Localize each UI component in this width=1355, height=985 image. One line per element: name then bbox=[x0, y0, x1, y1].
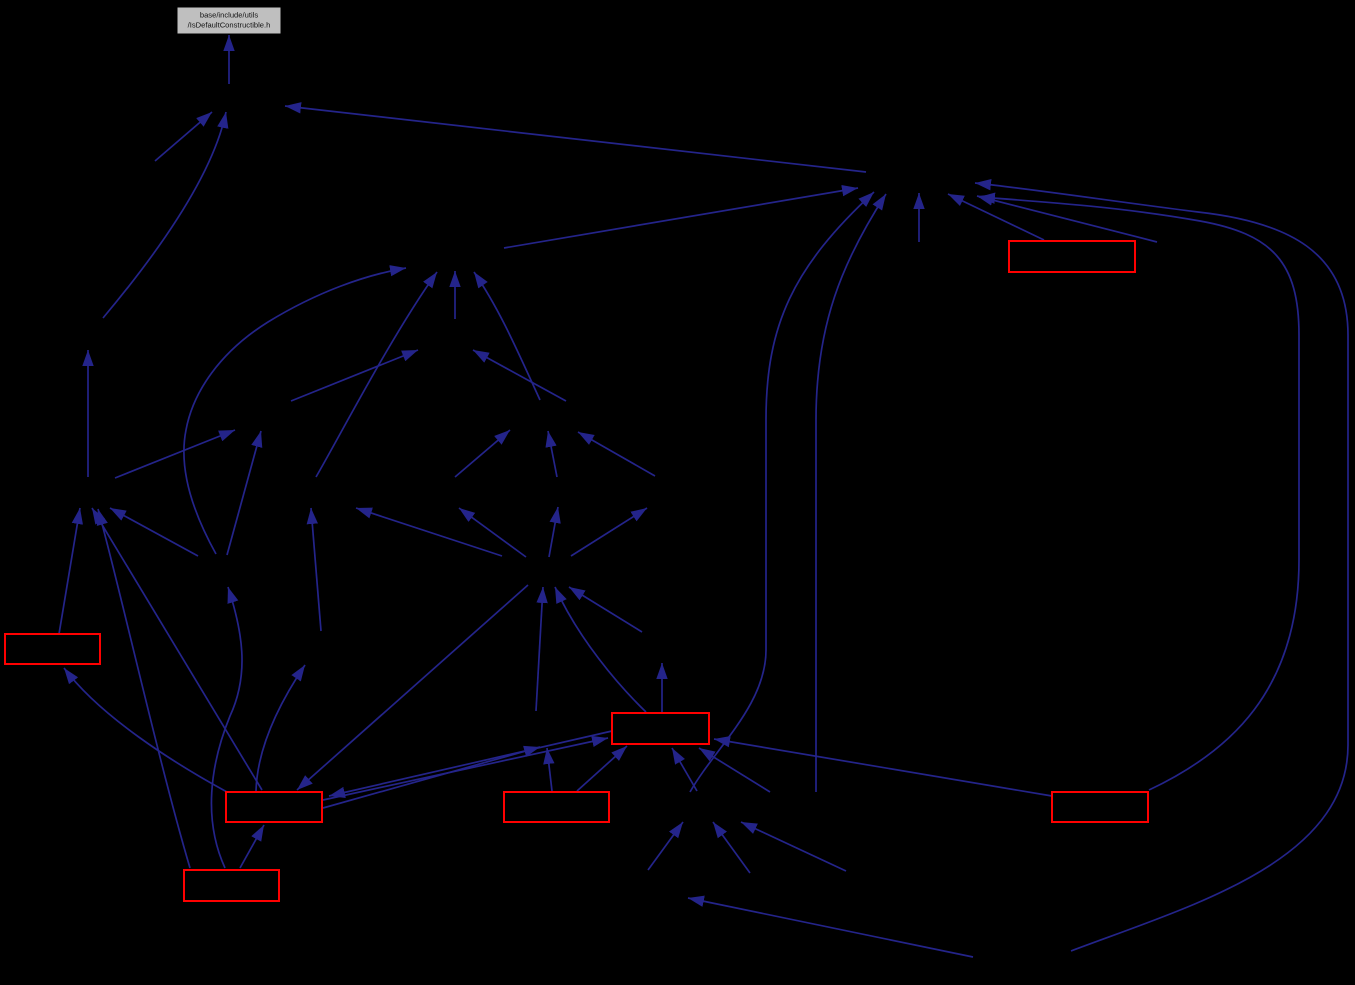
edge NHub2 to N3 (long vertical curve) bbox=[690, 192, 874, 792]
edge Nw to NC (steep curve) bbox=[316, 272, 437, 477]
edge NHub to Rc (downward) bbox=[297, 585, 528, 790]
edge NH to NG bbox=[110, 508, 198, 556]
edge Rc to Rf bbox=[323, 738, 608, 800]
edge NHub2 to Rf bbox=[672, 748, 697, 791]
edge N7 to ND bbox=[291, 350, 418, 401]
edge NG to N6 bbox=[87, 350, 89, 477]
edge Rc to Nx bbox=[256, 665, 305, 791]
edge N4 to N3 bbox=[918, 193, 920, 242]
node Rb red box bbox=[5, 634, 100, 664]
edge N6 to N2 (curved) bbox=[103, 112, 226, 318]
edge NHub to NJ bbox=[549, 507, 558, 557]
edge Rd to Rc bbox=[240, 825, 264, 868]
edge ND to NC bbox=[454, 271, 456, 319]
edge Ns to NHub2 bbox=[713, 822, 750, 873]
edge Rf to NL bbox=[661, 663, 663, 713]
edge Ra to N3 bbox=[948, 194, 1044, 240]
edge NC to N3 bbox=[504, 188, 858, 248]
edge NG to N7 bbox=[115, 430, 235, 478]
edge Re to Nm bbox=[547, 748, 552, 791]
edge Nu to Rf bbox=[699, 748, 770, 792]
edge Nr to NHub2 bbox=[648, 822, 683, 870]
edge Nx to Nw bbox=[311, 508, 321, 631]
edge N8 to N2 bbox=[155, 112, 212, 161]
edge Rc to NG bbox=[92, 508, 262, 790]
edge NL to NHub bbox=[569, 587, 642, 632]
svg-text:/IsDefaultConstructible.h: /IsDefaultConstructible.h bbox=[188, 21, 271, 30]
edge N2 to N1 bbox=[228, 35, 230, 84]
edge Rg to Rf bbox=[714, 739, 1052, 796]
edge NE to ND bbox=[473, 350, 566, 401]
edge Nt to NHub2 bbox=[741, 822, 846, 871]
edge NHub to NK bbox=[571, 508, 647, 556]
edge NI to NE bbox=[455, 430, 510, 477]
edge NH to NC (long left arc) bbox=[184, 268, 406, 554]
edge Nu to N3 (long vertical) bbox=[816, 194, 886, 792]
edge NHub to NI bbox=[459, 508, 526, 557]
edge Nv to Nr bbox=[688, 898, 973, 957]
edge Nv to N3 (big right curve outer) bbox=[975, 183, 1348, 951]
edge Nm to NHub bbox=[536, 587, 543, 711]
edge Rg to N3 (big right curve inner) bbox=[979, 197, 1299, 790]
edge Rd to NH (s-curve) bbox=[211, 587, 242, 868]
edge Rc to Rb (curve) bbox=[64, 668, 227, 792]
edge Rf to NHub (curve) bbox=[555, 587, 646, 712]
node N1 gray box base/include/utils/IsDefaultConstructible.h bbox=[177, 7, 281, 34]
edge Rd to NG bbox=[98, 509, 190, 868]
node Rc red box bbox=[226, 792, 322, 822]
edge Rc to Nm bbox=[323, 747, 540, 808]
edge NHub to Nw bbox=[356, 508, 502, 556]
edge NK to NE bbox=[578, 432, 655, 476]
svg-text:base/include/utils: base/include/utils bbox=[200, 11, 258, 20]
node Rd red box bbox=[184, 870, 279, 901]
edge N5 to N3 bbox=[977, 196, 1157, 242]
edge NJ to NE bbox=[548, 431, 557, 477]
node Rf red box bbox=[612, 713, 709, 744]
edge Re to Rf bbox=[577, 746, 627, 791]
node Ra red box bbox=[1009, 241, 1135, 272]
edge Rf to Rc (downward) bbox=[329, 731, 612, 796]
node Rg red box bbox=[1052, 792, 1148, 822]
node Re red box bbox=[504, 792, 609, 822]
edge N3 to N2 bbox=[285, 106, 866, 172]
edge NE to NC (curve) bbox=[474, 272, 540, 400]
edge NH to N7 bbox=[227, 431, 261, 555]
edge Rb to NG bbox=[59, 508, 80, 634]
